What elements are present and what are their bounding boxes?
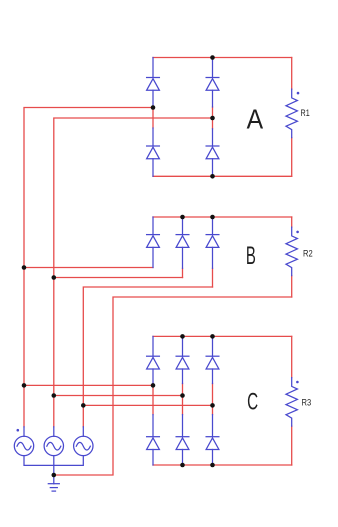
svg-text:C: C <box>247 389 258 416</box>
svg-text:R2: R2 <box>303 248 313 259</box>
svg-text:A: A <box>247 104 264 135</box>
svg-text:R3: R3 <box>302 398 312 409</box>
svg-text:B: B <box>246 242 256 270</box>
svg-text:R1: R1 <box>301 108 310 119</box>
